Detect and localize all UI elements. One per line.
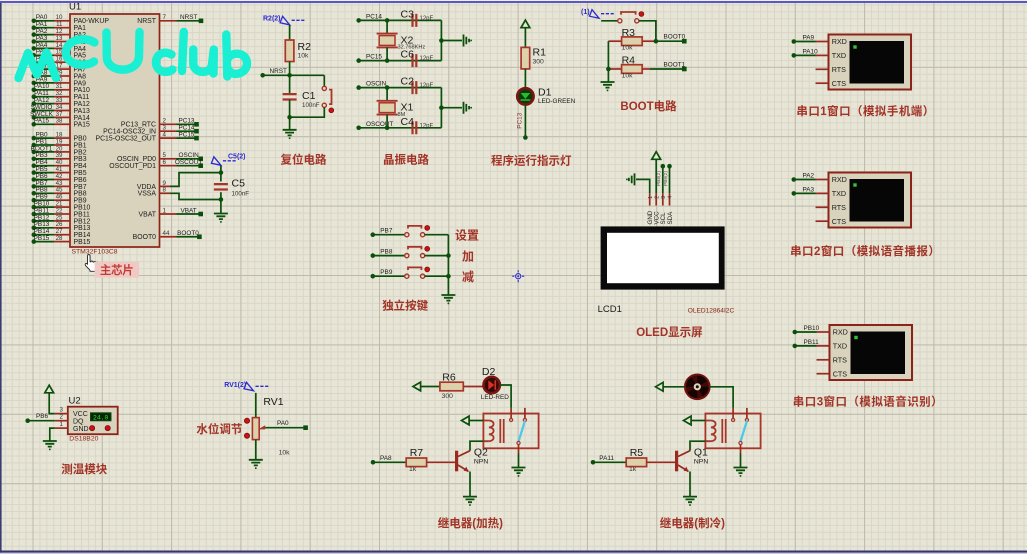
svg-text:OSCOUT: OSCOUT — [366, 121, 393, 128]
label 继电器(制冷) — [660, 516, 725, 530]
wire OLED VCC + power arrow — [652, 152, 661, 194]
svg-text:RV1(2): RV1(2) — [224, 382, 246, 389]
svg-text:PB10: PB10 — [804, 325, 820, 332]
svg-text:28: 28 — [56, 235, 63, 242]
svg-text:NPN: NPN — [694, 458, 708, 465]
LED D2 LED-RED — [481, 366, 509, 401]
ground keys — [441, 295, 455, 304]
svg-text:DS18B20: DS18B20 — [69, 436, 98, 443]
wire net PB12 to U1 pin 25 — [32, 214, 91, 225]
ground rotated left of OLED — [626, 173, 634, 185]
temperature sensor U2 DS18B20 — [68, 396, 118, 443]
wire BOOT1 — [650, 61, 687, 71]
resistor R1 300 — [521, 47, 546, 69]
svg-text:12pF: 12pF — [420, 16, 434, 22]
node PA8 — [371, 455, 407, 465]
wire OSCOUT row — [387, 127, 441, 129]
svg-text:VCC: VCC — [73, 411, 88, 418]
ground BOOT divider — [601, 82, 615, 91]
wire coil to Q2 collector — [470, 441, 483, 451]
label 复位电路 reset circuit — [281, 153, 327, 167]
ground RV1 — [249, 460, 263, 469]
label 串口3窗口（模拟语音识别） — [793, 395, 943, 409]
push button key PB7 — [405, 226, 430, 237]
U1 pin 8 VSSA — [138, 187, 170, 198]
power arrow relay coil cooling — [684, 416, 706, 425]
label 减 — [462, 270, 474, 284]
label 继电器(加热) — [438, 516, 503, 530]
svg-text:主芯片: 主芯片 — [100, 263, 134, 277]
transistor Q1 NPN — [677, 447, 709, 472]
svg-text:PA10: PA10 — [803, 48, 819, 55]
wire net PA7 to U1 pin 17 — [32, 63, 87, 74]
svg-text:串口3窗口（模拟语音识别）: 串口3窗口（模拟语音识别） — [793, 395, 943, 409]
svg-text:PA8: PA8 — [380, 455, 392, 462]
svg-text:PB9: PB9 — [380, 269, 393, 276]
svg-text:NRST: NRST — [137, 18, 157, 25]
power arrow cooling supply — [656, 382, 686, 391]
wire key PB9 to rail — [425, 275, 449, 277]
svg-text:设置: 设置 — [455, 229, 479, 243]
svg-text:R6: R6 — [442, 372, 456, 384]
wire PA9 to RXD — [792, 35, 829, 44]
wire VDDA to C5 top node — [170, 173, 221, 187]
wire flag to RV1 — [255, 393, 257, 418]
ground U2 — [43, 441, 57, 450]
wire net SWDIO to U1 pin 34 — [31, 104, 90, 115]
svg-text:加: 加 — [462, 250, 474, 264]
wire R1 to D1 — [524, 69, 526, 88]
wire net PA4 to U1 pin 14 — [32, 42, 87, 53]
U2 pin stubs — [55, 406, 68, 428]
svg-text:10k: 10k — [279, 449, 291, 456]
wire net PB6 to U1 pin 42 — [32, 173, 87, 184]
label 晶振电路 crystal circuit — [383, 153, 429, 167]
svg-text:1: 1 — [60, 421, 64, 428]
label OLED显示屏 — [636, 326, 702, 339]
svg-text:44: 44 — [163, 230, 170, 237]
svg-text:PC13: PC13 — [517, 112, 524, 128]
svg-text:4: 4 — [163, 132, 167, 139]
svg-text:PB9(2): PB9(2) — [663, 171, 669, 186]
label 测温模块 — [61, 462, 107, 476]
svg-text:OSCIN: OSCIN — [366, 81, 387, 88]
LCD1 OLED display body — [598, 226, 735, 315]
svg-text:300: 300 — [442, 393, 454, 400]
svg-text:7: 7 — [163, 14, 167, 21]
svg-text:1: 1 — [648, 196, 654, 199]
wire net PA3 to U1 pin 13 — [32, 35, 87, 46]
wire net PB15 to U1 pin 28 — [32, 235, 91, 246]
wire net PA15 to U1 pin 38 — [32, 118, 91, 129]
svg-text:U1: U1 — [69, 2, 81, 13]
potentiometer RV1 10k — [244, 396, 290, 456]
label 独立按键 — [382, 299, 428, 313]
virtual terminal box serial — [829, 35, 912, 90]
wire key PB7 to rail — [425, 234, 449, 236]
node PA11 — [591, 455, 627, 465]
svg-text:10k: 10k — [622, 73, 634, 80]
wire net PC14 from U1 pin 3 — [103, 125, 199, 136]
node PB9 key — [371, 269, 405, 278]
wire net PA11 to U1 pin 32 — [32, 90, 90, 101]
svg-text:RTS: RTS — [832, 65, 846, 74]
capacitor C2 12pF — [401, 76, 434, 95]
OLED pin 3 SCL — [660, 193, 667, 224]
svg-text:10k: 10k — [622, 45, 634, 52]
wire net PA9 to U1 pin 30 — [32, 76, 87, 87]
svg-text:PC15-OSC32_OUT: PC15-OSC32_OUT — [95, 136, 156, 143]
pin RTS stub — [816, 206, 829, 208]
svg-text:TXD: TXD — [832, 189, 846, 198]
wire D1 to PC13 node — [517, 105, 528, 140]
svg-text:OSCOUT: OSCOUT — [175, 159, 202, 166]
svg-text:STM32F103C8: STM32F103C8 — [72, 249, 118, 256]
svg-text:VBAT: VBAT — [180, 207, 196, 214]
svg-text:PA3: PA3 — [803, 186, 815, 193]
label 加 — [462, 250, 474, 264]
ground relay RL2 contact — [734, 454, 748, 477]
svg-text:1: 1 — [163, 207, 167, 214]
node OSCIN — [356, 81, 387, 90]
ground rotated right — [464, 102, 472, 114]
wire net PB9 to U1 pin 46 — [32, 194, 87, 205]
wire net OSCIN from U1 pin 5 — [117, 152, 203, 163]
power arrow relay coil heating — [462, 416, 484, 425]
wire OLED GND — [636, 179, 650, 193]
svg-text:D1: D1 — [538, 87, 552, 99]
wire PC14 row — [385, 18, 442, 23]
svg-text:CTS: CTS — [832, 79, 847, 88]
svg-text:复位电路: 复位电路 — [281, 153, 327, 167]
OLED pin 4 SDA — [667, 193, 674, 224]
capacitor C4 12pF — [401, 116, 434, 135]
wire OSCIN row — [385, 85, 442, 90]
svg-text:TXD: TXD — [832, 51, 846, 60]
svg-text:U2: U2 — [69, 396, 81, 407]
crystal X2 32.768KHz — [377, 20, 426, 60]
ground rotated right — [464, 35, 472, 47]
wire net PB7 to U1 pin 43 — [32, 180, 87, 191]
svg-text:(1): (1) — [581, 9, 590, 16]
push button key PB8 — [405, 246, 430, 257]
ground below C1 — [283, 130, 297, 139]
wire R3/R4 left rail to ground — [606, 41, 611, 82]
transistor Q2 NPN — [457, 447, 489, 472]
svg-text:24.0: 24.0 — [93, 414, 109, 421]
svg-text:12pF: 12pF — [420, 83, 434, 89]
svg-text:LED-GREEN: LED-GREEN — [538, 98, 576, 105]
svg-text:C1: C1 — [302, 90, 316, 102]
wire net VBAT from U1 pin 1 — [139, 207, 204, 218]
wire net PA2 to U1 pin 12 — [32, 28, 87, 39]
wire net PA5 to U1 pin 15 — [32, 49, 87, 60]
svg-text:BOOT0: BOOT0 — [177, 230, 199, 237]
svg-text:Q1: Q1 — [694, 447, 708, 459]
svg-text:LED-RED: LED-RED — [481, 394, 509, 401]
svg-text:RXD: RXD — [832, 37, 847, 46]
MCUclub watermark — [19, 32, 248, 78]
svg-text:测温模块: 测温模块 — [61, 462, 107, 476]
node OSCOUT — [356, 121, 393, 130]
svg-text:C6: C6 — [401, 49, 415, 61]
resistor R2 10k — [285, 40, 311, 62]
node PB7 key — [371, 228, 405, 237]
push button reset — [322, 86, 334, 112]
wire D2 to relay RL1 — [500, 385, 511, 408]
wire PB6 to DQ — [25, 413, 54, 423]
wire flag to R2 — [289, 25, 291, 40]
wire net PA8 to U1 pin 29 — [32, 69, 87, 80]
svg-text:水位调节: 水位调节 — [196, 422, 242, 436]
svg-text:RXD: RXD — [832, 175, 847, 184]
label 设置 — [455, 229, 479, 243]
svg-text:晶振电路: 晶振电路 — [383, 153, 429, 167]
svg-text:D2: D2 — [482, 366, 496, 378]
wire PA3 to TXD — [792, 186, 829, 195]
wire Q2 emitter to ground — [463, 472, 477, 506]
svg-text:RTS: RTS — [833, 355, 847, 364]
virtual terminal box serial — [830, 325, 913, 380]
svg-text:串口1窗口（模拟手机端）: 串口1窗口（模拟手机端） — [796, 104, 934, 118]
svg-text:PB15: PB15 — [34, 235, 50, 242]
svg-text:8: 8 — [163, 187, 167, 194]
svg-text:VBAT: VBAT — [139, 211, 157, 218]
wire net SWCLK to U1 pin 37 — [30, 111, 90, 122]
wire net PB5 to U1 pin 41 — [32, 166, 87, 177]
svg-text:OLED12864I2C: OLED12864I2C — [688, 308, 735, 315]
svg-text:RXD: RXD — [833, 328, 848, 337]
resistor R5 1k — [626, 447, 675, 473]
virtual terminal box serial — [829, 173, 912, 228]
wire caps to ground rail — [439, 88, 462, 128]
svg-text:SDA: SDA — [667, 211, 674, 225]
wire net PA0 to U1 pin 10 — [32, 14, 110, 25]
wire net PA6 to U1 pin 16 — [32, 56, 87, 67]
svg-text:C2: C2 — [401, 76, 415, 88]
svg-text:TXD: TXD — [833, 342, 847, 351]
svg-text:减: 减 — [462, 270, 474, 284]
svg-text:2: 2 — [60, 414, 64, 421]
svg-text:BOOT电路: BOOT电路 — [620, 99, 677, 113]
svg-text:NRST: NRST — [270, 68, 287, 75]
wire OLED SCL — [656, 164, 665, 193]
relay RL2 cooling — [705, 408, 760, 454]
svg-text:BOOT0: BOOT0 — [664, 34, 686, 41]
cursor hand icon — [85, 255, 98, 272]
svg-text:DQ: DQ — [73, 418, 84, 425]
wire key PB8 to rail — [425, 255, 449, 257]
svg-text:R2(2): R2(2) — [263, 15, 281, 22]
svg-text:CTS: CTS — [832, 217, 847, 226]
svg-text:PA15: PA15 — [74, 122, 91, 129]
svg-text:PA0: PA0 — [277, 420, 289, 427]
svg-text:1k: 1k — [629, 466, 637, 473]
wire keys ground rail — [446, 235, 451, 295]
svg-text:R3: R3 — [622, 27, 636, 39]
svg-text:C5(2): C5(2) — [228, 154, 246, 161]
wire PB10 to RXD — [793, 325, 830, 334]
svg-text:1k: 1k — [409, 466, 417, 473]
svg-text:R2: R2 — [298, 41, 312, 53]
capacitor C5 100nF — [214, 178, 249, 198]
svg-text:PA15: PA15 — [34, 118, 50, 125]
svg-text:GND: GND — [73, 426, 89, 433]
capacitor C3 12pF — [401, 8, 434, 27]
svg-text:CTS: CTS — [833, 369, 848, 378]
wire net PB0 to U1 pin 18 — [32, 132, 87, 143]
wire net NRST from U1 pin 7 — [137, 14, 203, 25]
label 主芯片 main chip — [95, 262, 140, 278]
node junction C5 bottom — [219, 192, 224, 213]
svg-text:PB11: PB11 — [804, 339, 820, 346]
wire net PC15 from U1 pin 4 — [95, 132, 198, 143]
wire PC15 row — [387, 60, 441, 62]
capacitor C1 100nF — [283, 75, 320, 130]
push button BOOT switch — [618, 12, 644, 23]
wire net PB3 to U1 pin 39 — [32, 152, 87, 163]
svg-text:12pF: 12pF — [420, 123, 434, 129]
label 串口2窗口（模拟语音播报） — [790, 244, 940, 258]
node PC14 — [356, 13, 387, 22]
svg-text:PB8(2): PB8(2) — [656, 171, 662, 186]
svg-text:2: 2 — [654, 196, 660, 199]
wire coil to Q1 collector — [690, 441, 705, 451]
svg-text:300: 300 — [533, 59, 545, 66]
wire button to C1 bottom node — [290, 107, 325, 117]
svg-text:PC15: PC15 — [179, 132, 195, 139]
svg-text:PC15: PC15 — [366, 54, 382, 61]
wire net BOOT0 from U1 pin 44 — [133, 230, 202, 241]
svg-text:C4: C4 — [401, 116, 415, 128]
resistor R6 300 — [440, 372, 484, 401]
svg-text:R1: R1 — [533, 47, 547, 59]
wire to BOOT switch — [601, 20, 618, 22]
svg-text:100nF: 100nF — [302, 102, 320, 109]
wire Q1 emitter to ground — [683, 472, 697, 506]
svg-text:RTS: RTS — [832, 203, 846, 212]
svg-text:LCD1: LCD1 — [598, 304, 622, 315]
svg-text:12pF: 12pF — [420, 56, 434, 62]
wire VSSA to C5 bottom node — [170, 193, 221, 199]
wire caps to ground rail — [439, 20, 462, 60]
wire motor to relay RL2 — [710, 387, 734, 408]
LED D1 LED-GREEN — [517, 87, 575, 106]
wire net BOOT1 to U1 pin 20 — [31, 145, 87, 156]
svg-text:BOOT0: BOOT0 — [133, 234, 157, 241]
wire net PA12 to U1 pin 33 — [32, 97, 91, 108]
wire net PB1 to U1 pin 19 — [32, 138, 87, 149]
pin RTS stub — [817, 359, 830, 361]
wire R2 to NRST node — [289, 62, 291, 76]
wire net PB13 to U1 pin 26 — [32, 221, 91, 232]
wire PA2 to RXD — [792, 173, 829, 182]
pin CTS stub — [816, 82, 829, 84]
wire net PB4 to U1 pin 40 — [32, 159, 87, 170]
origin marker — [512, 270, 524, 282]
label 水位调节 — [196, 422, 242, 436]
resistor R3 10k — [608, 27, 656, 52]
svg-text:PB15: PB15 — [74, 239, 91, 246]
goto flag C5(2) — [211, 154, 245, 173]
svg-text:RV1: RV1 — [263, 396, 283, 408]
relay RL1 heating — [483, 408, 538, 454]
svg-text:NRST: NRST — [180, 14, 197, 21]
node PC15 — [356, 54, 389, 63]
wire net PA10 to U1 pin 31 — [32, 83, 91, 94]
svg-text:38: 38 — [56, 118, 63, 125]
svg-text:PA9: PA9 — [803, 35, 815, 42]
node BOOT0 junction — [654, 34, 687, 44]
svg-text:VSSA: VSSA — [138, 191, 157, 198]
wire PA10 to TXD — [792, 48, 829, 57]
wire switch to BOOT0 node — [639, 21, 656, 41]
svg-text:串口2窗口（模拟语音播报）: 串口2窗口（模拟语音播报） — [790, 244, 940, 258]
resistor R7 1k — [406, 447, 455, 473]
svg-text:继电器(制冷): 继电器(制冷) — [660, 516, 725, 530]
svg-text:3: 3 — [661, 196, 667, 199]
capacitor C6 12pF — [401, 49, 434, 68]
svg-text:BOOT1: BOOT1 — [664, 61, 686, 68]
motor fan symbol — [685, 375, 710, 400]
svg-text:继电器(加热): 继电器(加热) — [438, 516, 503, 530]
wire net PA1 to U1 pin 11 — [32, 21, 87, 32]
ground below C5 — [214, 214, 228, 223]
svg-text:程序运行指示灯: 程序运行指示灯 — [491, 154, 572, 168]
pin CTS stub — [816, 220, 829, 222]
wire to reset button — [323, 75, 325, 86]
OLED pin 2 VCC — [654, 193, 661, 224]
node NRST — [260, 68, 324, 78]
goto flag (1) — [581, 9, 615, 18]
power arrow for LED — [521, 20, 530, 47]
svg-text:C3: C3 — [401, 8, 415, 20]
node PB8 key — [371, 249, 405, 258]
svg-text:PA2: PA2 — [803, 173, 815, 180]
wire net PC13 from U1 pin 2 — [121, 118, 199, 129]
svg-text:PB6: PB6 — [36, 413, 49, 420]
op-amp U1 body (STM32F103C8 MCU) — [69, 2, 160, 256]
wire RV1 wiper to PA0 — [265, 420, 308, 430]
power arrow heating supply — [413, 382, 440, 391]
svg-text:10k: 10k — [298, 53, 310, 60]
svg-text:PC14: PC14 — [366, 13, 382, 20]
wire net PB10 to U1 pin 21 — [32, 201, 91, 212]
svg-text:C5: C5 — [232, 178, 246, 190]
wire PB11 to TXD — [793, 339, 830, 348]
wire net PB11 to U1 pin 22 — [32, 207, 91, 218]
svg-text:6: 6 — [163, 159, 167, 166]
svg-text:R4: R4 — [622, 55, 636, 67]
svg-text:独立按键: 独立按键 — [382, 299, 428, 313]
power arrow U2 VCC — [45, 385, 55, 413]
svg-text:NPN: NPN — [474, 458, 488, 465]
svg-text:PA11: PA11 — [599, 455, 614, 462]
goto flag R2(2) — [263, 15, 306, 25]
wire GND pin to ground — [50, 428, 55, 441]
goto flag RV1(2) — [224, 382, 269, 391]
svg-text:R5: R5 — [630, 447, 644, 459]
pin RTS stub — [816, 68, 829, 70]
svg-text:R7: R7 — [410, 447, 424, 459]
pin CTS stub — [817, 373, 830, 375]
svg-text:100nF: 100nF — [232, 191, 250, 198]
resistor R4 10k — [608, 55, 650, 80]
label BOOT电路 — [620, 99, 677, 113]
wire net PB8 to U1 pin 45 — [32, 187, 87, 198]
svg-text:PB7: PB7 — [380, 228, 393, 235]
svg-text:3: 3 — [60, 406, 64, 413]
